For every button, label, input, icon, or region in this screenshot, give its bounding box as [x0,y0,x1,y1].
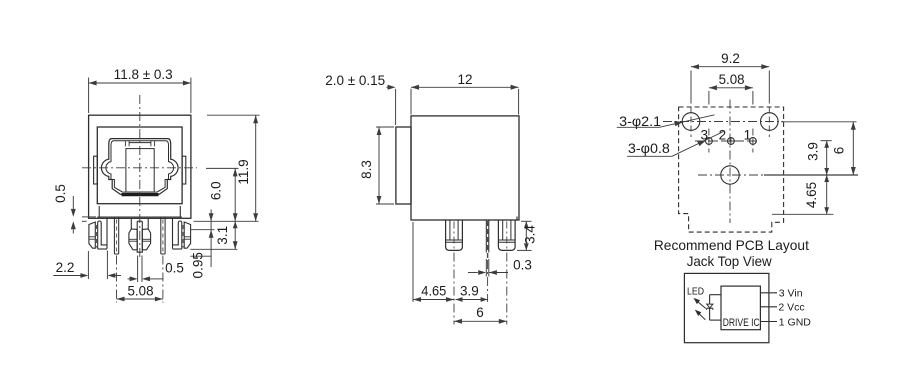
front center contact pin 2 [137,221,142,252]
pin 3 Vin lead [760,292,777,294]
svg-text:2 Vcc: 2 Vcc [778,301,804,313]
svg-text:6.0: 6.0 [208,181,223,200]
dim 0.3 pin thickness [468,257,532,276]
pcb footprint outline [679,107,784,232]
pcb hole C bottom phi2.1 [721,166,739,184]
svg-text:0.5: 0.5 [165,261,184,276]
pin 2 Vcc lead [760,306,777,308]
svg-text:LED: LED [687,287,704,298]
svg-text:3: 3 [700,127,708,142]
svg-text:4.65: 4.65 [804,182,819,208]
caption jack top view [687,253,773,269]
caption recommend pcb layout [654,237,809,253]
front right mounting peg [173,218,191,249]
svg-text:12: 12 [457,72,472,87]
pin 1 GND label [779,316,812,328]
svg-text:3-φ2.1: 3-φ2.1 [619,114,661,129]
front view outer housing body [89,115,191,218]
svg-text:1 GND: 1 GND [779,316,812,328]
front view inner housing seat line [97,216,182,218]
dim 0.95 shoulder to wing [190,210,213,279]
svg-text:3.4: 3.4 [523,225,538,244]
svg-text:11.9: 11.9 [236,159,251,184]
svg-text:0.95: 0.95 [190,252,205,278]
svg-text:DRIVE IC: DRIVE IC [723,317,760,329]
dim 3.1 peg length [215,221,238,249]
svg-text:9.2: 9.2 [721,51,740,66]
pin 1 GND lead [760,321,777,323]
front horizontal centerline [82,167,197,169]
pcb pad pin1 phi0.8 [750,138,757,145]
side bottom extension lines [413,222,507,325]
dim 6 pcb [832,122,856,175]
svg-text:5.08: 5.08 [719,72,745,87]
svg-text:3-φ0.8: 3-φ0.8 [628,141,670,156]
front contact pin 3 [114,218,118,255]
front left mounting peg [89,218,107,249]
drive ic U1 [721,286,760,330]
side view front porch [396,127,411,204]
dim 8.3 porch height [359,127,394,204]
svg-text:2: 2 [719,127,727,142]
svg-text:3 Vin: 3 Vin [779,288,803,300]
led D1 diode symbol [707,304,713,310]
front right extension lines [190,115,259,256]
dim 6 peg pitch [454,305,507,324]
toslink port inner contour [106,141,174,192]
dim 2.0 +-0.15 porch depth [325,73,395,125]
pcb hole B top right phi2.1 [761,113,779,131]
dim 0.5 left shoulder [53,184,96,233]
dim 4.65 body to peg [413,284,454,302]
pcb centerlines [663,100,783,224]
front vertical centerline [139,95,141,257]
pcb pin number 3 [700,127,708,142]
pcb hole A top left phi2.1 [682,113,700,131]
front view left side tab [94,156,98,184]
svg-text:2.2: 2.2 [56,260,75,275]
label 3-phi2.1 with leader [617,114,715,129]
dim 3.9 pcb [805,141,829,175]
side view left peg [446,220,463,250]
pcb pad pin3 phi0.8 [706,138,713,145]
svg-text:6: 6 [476,305,484,320]
toslink top recess [125,141,154,146]
pcb right extension lines [764,122,858,215]
dim 4.65 pcb [804,175,829,214]
svg-text:Recommend PCB Layout: Recommend PCB Layout [654,237,809,253]
wire cathode [710,319,721,321]
front center peg wings [129,218,151,250]
label 3-phi0.8 with leader [627,132,723,157]
led label [687,287,704,298]
pcb pad pin2 phi0.8 [728,138,735,145]
svg-text:4.65: 4.65 [421,284,446,299]
svg-text:3.1: 3.1 [215,226,230,245]
front view bezel foot left [98,206,100,217]
toslink shutter window [126,149,154,192]
dim 12 body depth [411,72,519,115]
svg-text:0.3: 0.3 [513,257,532,272]
dim 5.08 pin pitch [117,256,163,303]
svg-text:1: 1 [744,127,752,142]
toslink bottom dark band [122,193,159,196]
led emission arrow 2 [695,310,706,320]
front view bezel foot right [179,206,181,217]
dim 2.2 peg width [53,251,121,280]
svg-text:8.3: 8.3 [359,160,374,179]
wire anode [710,294,721,296]
drive ic label [723,317,760,329]
dim 6.0 center to bottom [208,168,237,221]
dim 3.4 peg length side [517,221,538,250]
dim 5.08 pad pitch pcb [709,72,753,104]
dim 0.5 pin width [128,256,184,283]
svg-text:11.8 ± 0.3: 11.8 ± 0.3 [114,67,173,82]
front view inner bezel [97,127,182,204]
dim 11.9 housing height [236,115,258,221]
svg-text:3.9: 3.9 [460,284,479,299]
svg-text:5.08: 5.08 [128,283,154,298]
side view right peg [498,220,515,250]
wire led vertical [709,295,711,320]
side view bottom right step [516,217,518,221]
front view right side tab [182,156,186,184]
pin 3 Vin label [779,288,803,300]
dim 9.2 peg hole pitch [691,51,769,104]
led emission arrow 1 [694,298,706,309]
toslink port outer contour [101,139,178,195]
pin 2 Vcc label [778,301,804,313]
side view body [411,116,519,220]
svg-text:Jack Top View: Jack Top View [687,253,773,269]
side view contact pin [486,220,489,258]
svg-text:6: 6 [832,147,847,155]
pcb pin number 2 [719,127,727,142]
schematic enclosure box [684,273,769,342]
svg-text:2.0 ± 0.15: 2.0 ± 0.15 [325,73,385,88]
front contact pin 1 [161,218,165,255]
dim 11.8 +-0.3 top width [89,67,191,113]
pcb pin number 1 [744,127,752,142]
svg-text:0.5: 0.5 [53,184,68,203]
svg-text:3.9: 3.9 [805,142,820,161]
dim 3.9 peg to pin [456,284,488,302]
